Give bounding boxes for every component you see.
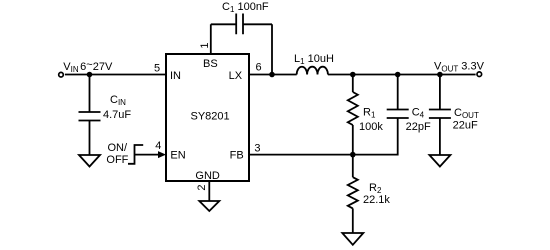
svg-text:22uF: 22uF <box>453 119 478 131</box>
svg-text:C1 100nF: C1 100nF <box>222 1 269 14</box>
svg-text:FB: FB <box>230 149 244 161</box>
svg-text:IN: IN <box>170 70 181 82</box>
svg-text:4.7uF: 4.7uF <box>103 109 131 121</box>
svg-text:OFF: OFF <box>106 154 128 166</box>
svg-text:3: 3 <box>254 143 260 155</box>
svg-text:6: 6 <box>256 62 262 74</box>
svg-text:L1 10uH: L1 10uH <box>294 53 334 66</box>
svg-text:100k: 100k <box>359 121 383 133</box>
svg-text:SY8201: SY8201 <box>191 111 230 123</box>
svg-text:1: 1 <box>199 43 211 49</box>
svg-text:4: 4 <box>155 140 161 152</box>
svg-text:22.1k: 22.1k <box>363 194 390 206</box>
svg-text:GND: GND <box>195 170 220 182</box>
svg-text:BS: BS <box>203 58 218 70</box>
svg-text:5: 5 <box>154 63 160 75</box>
svg-text:LX: LX <box>229 70 243 82</box>
svg-text:ON/: ON/ <box>108 142 129 154</box>
svg-text:EN: EN <box>170 149 185 161</box>
svg-text:22pF: 22pF <box>406 121 431 133</box>
svg-text:2: 2 <box>196 184 208 190</box>
